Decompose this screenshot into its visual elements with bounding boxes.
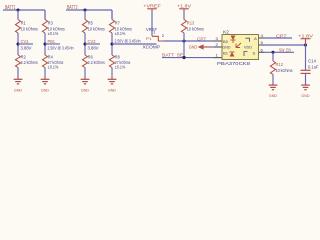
svg-text:B1: B1 [223,52,228,56]
svg-text:GND: GND [269,93,277,98]
svg-text:VREF: VREF [146,27,157,32]
svg-text:R3: R3 [48,21,53,26]
svg-text:+VREF: +VREF [143,3,161,8]
svg-text:PB1: PB1 [48,39,56,44]
svg-text:0.1uF: 0.1uF [308,64,319,69]
svg-text:CV2: CV2 [88,39,96,44]
svg-text:±0.1%: ±0.1% [115,64,126,69]
svg-text:10 kOhms: 10 kOhms [276,68,294,73]
svg-text:5: 5 [261,41,264,45]
svg-text:GND: GND [41,87,49,92]
svg-text:GND: GND [108,87,116,92]
svg-text:R7: R7 [115,21,120,26]
svg-text:R8: R8 [115,54,120,59]
svg-text:R5: R5 [88,21,93,26]
svg-text:10 kOhms: 10 kOhms [187,27,205,32]
svg-text:PBA370CK8: PBA370CK8 [217,61,251,66]
svg-text:VDD: VDD [244,46,253,50]
svg-text:R4: R4 [48,54,53,59]
svg-text:2.2 kOhms: 2.2 kOhms [21,60,39,65]
svg-text:CP7: CP7 [197,36,206,41]
svg-text:±0.1%: ±0.1% [115,31,126,36]
svg-text:R1: R1 [21,21,26,26]
svg-text:2: 2 [216,43,219,47]
svg-text:6: 6 [261,48,264,52]
svg-text:+1.8V: +1.8V [298,33,314,38]
svg-text:XCOMP: XCOMP [143,44,161,49]
svg-text:GND: GND [223,46,231,50]
svg-text:B0: B0 [223,40,228,44]
svg-text:P1: P1 [146,37,152,41]
svg-text:±0.1%: ±0.1% [48,64,59,69]
svg-text:±0.1%: ±0.1% [48,31,59,36]
svg-text:10 kOhms: 10 kOhms [21,27,39,32]
svg-text:2.2 kOhms: 2.2 kOhms [88,60,106,65]
svg-text:GND: GND [189,45,198,50]
svg-text:GND: GND [301,93,309,98]
svg-text:C14: C14 [308,58,316,63]
svg-text:4: 4 [261,34,264,38]
svg-text:+1.8V: +1.8V [177,3,192,8]
svg-text:SW_EN: SW_EN [279,47,291,52]
svg-text:CP7: CP7 [276,33,287,38]
svg-text:10 kOhms: 10 kOhms [88,27,106,32]
svg-text:GND: GND [81,87,89,92]
svg-text:R2: R2 [21,54,26,59]
svg-text:2: 2 [162,34,165,38]
svg-text:K2: K2 [223,30,229,35]
svg-text:R6: R6 [88,54,93,59]
svg-text:3: 3 [216,37,219,41]
svg-text:R12: R12 [276,62,284,67]
svg-text:3.88V: 3.88V [21,45,33,50]
svg-text:GND: GND [14,87,22,92]
svg-text:R13: R13 [187,21,195,26]
svg-text:1: 1 [153,31,156,35]
svg-text:3.88V: 3.88V [88,45,100,50]
svg-text:1: 1 [216,54,219,58]
svg-text:2.50V @ 3.45Vin: 2.50V @ 3.45Vin [115,39,141,44]
svg-text:2.50V @ 3.45Vin: 2.50V @ 3.45Vin [48,45,74,50]
svg-text:CV1: CV1 [21,39,29,44]
